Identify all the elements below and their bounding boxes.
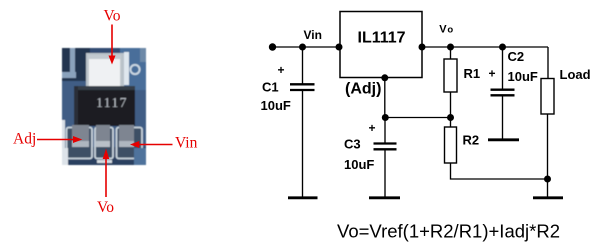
svg-text:Adj: Adj [13,131,36,148]
svg-text:10uF: 10uF [508,69,538,84]
svg-text:Vin: Vin [304,28,322,42]
svg-text:IL1117: IL1117 [358,29,406,46]
svg-text:+: + [278,63,285,77]
svg-text:(Adj): (Adj) [345,81,381,98]
svg-text:10uF: 10uF [344,157,374,172]
svg-text:C2: C2 [508,49,525,64]
svg-text:R1: R1 [464,66,481,81]
svg-text:Vo=Vref(1+R2/R1)+Iadj*R2: Vo=Vref(1+R2/R1)+Iadj*R2 [337,221,560,242]
svg-text:Vo: Vo [104,7,121,24]
svg-text:R2: R2 [463,133,480,148]
svg-text:1117: 1117 [96,96,128,111]
svg-text:Vo: Vo [439,24,453,36]
svg-text:+: + [489,67,496,81]
svg-text:C3: C3 [344,137,361,152]
svg-text:10uF: 10uF [261,98,291,113]
svg-text:Vo: Vo [97,199,114,216]
svg-text:C1: C1 [262,80,279,95]
svg-text:Vin: Vin [175,135,198,152]
svg-text:Load: Load [560,67,591,82]
svg-text:+: + [369,121,376,135]
